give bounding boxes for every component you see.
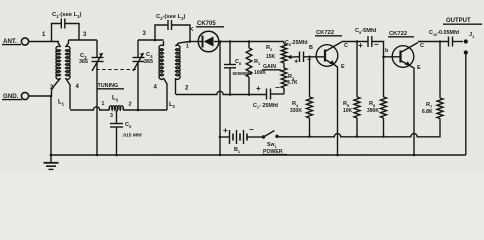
wire ground rail — [51, 154, 466, 156]
value label C6 500MMfd — [233, 59, 253, 76]
svg-text:J1: J1 — [469, 32, 475, 39]
junction — [356, 135, 359, 138]
svg-text:100K: 100K — [254, 70, 266, 76]
capacitor C2 — [155, 14, 190, 42]
variable capacitor C4 — [133, 40, 145, 110]
svg-text:R7: R7 — [426, 102, 433, 109]
junction — [115, 154, 118, 157]
junction — [356, 40, 359, 43]
capacitor C7 electrolytic — [256, 83, 284, 100]
svg-text:390K: 390K — [367, 108, 379, 114]
svg-text:3: 3 — [110, 113, 113, 119]
svg-text:365: 365 — [79, 59, 88, 65]
terminal GND — [21, 92, 28, 99]
resistor R7 — [437, 42, 443, 137]
svg-text:.015 Mfd: .015 Mfd — [122, 133, 142, 139]
resistor R5 — [354, 42, 360, 137]
svg-text:10K: 10K — [343, 108, 353, 114]
svg-text:R2: R2 — [266, 45, 273, 52]
svg-text:6.8K: 6.8K — [422, 109, 433, 115]
svg-text:C10-0.05Mfd: C10-0.05Mfd — [429, 30, 459, 37]
inductor T2 left winding — [159, 41, 167, 110]
net label GND — [2, 93, 22, 100]
svg-text:+: + — [256, 84, 261, 93]
junction — [96, 154, 99, 157]
svg-text:B: B — [309, 45, 313, 51]
svg-text:1: 1 — [102, 101, 105, 107]
svg-text:GAIN: GAIN — [263, 64, 276, 70]
wire — [418, 41, 449, 43]
junction — [336, 154, 339, 157]
wire — [69, 39, 98, 41]
capacitor C1 — [52, 12, 82, 42]
junction — [308, 135, 311, 138]
wire — [219, 41, 284, 43]
svg-text:−: − — [249, 125, 254, 134]
svg-text:C9-5Mfd: C9-5Mfd — [355, 28, 377, 35]
svg-text:E: E — [341, 64, 345, 70]
junction — [219, 136, 222, 139]
junction — [382, 56, 385, 59]
capacitor C6 — [224, 42, 236, 95]
svg-text:365: 365 — [144, 59, 153, 65]
svg-text:E: E — [417, 65, 421, 71]
value label R1 100K — [254, 59, 266, 76]
part label CK722 — [315, 30, 342, 36]
svg-text:R4: R4 — [292, 101, 299, 108]
label TUNING — [97, 83, 125, 89]
svg-text:R6: R6 — [369, 101, 376, 108]
svg-text:C: C — [420, 43, 424, 49]
svg-text:C1-(see L1): C1-(see L1) — [52, 12, 82, 19]
svg-text:+: + — [294, 57, 299, 66]
wire — [70, 107, 110, 110]
svg-text:C: C — [344, 43, 348, 49]
svg-text:C7- 25Mfd: C7- 25Mfd — [253, 103, 278, 110]
inductor L2 winding — [176, 42, 191, 95]
svg-text:B1: B1 — [234, 147, 241, 154]
wire battery positive feed — [219, 42, 221, 156]
svg-text:1: 1 — [186, 44, 189, 50]
jack J1 tip terminal — [464, 39, 468, 43]
junction — [219, 154, 222, 157]
svg-text:C4: C4 — [146, 52, 153, 59]
junction — [382, 135, 385, 138]
junction — [50, 154, 53, 157]
resistor R1 — [246, 42, 252, 95]
capacitor C5 — [110, 110, 123, 155]
value label R2 15K GAIN — [262, 45, 281, 70]
wire GND drop — [50, 96, 52, 155]
value label C5 .015 Mfd — [122, 122, 142, 139]
value label R6 390K — [367, 101, 379, 114]
part label CK705 — [196, 21, 224, 27]
variable capacitor C3 — [92, 40, 104, 155]
ganged tuning dashed link — [96, 69, 136, 71]
part label CK722 — [388, 31, 414, 37]
wire — [295, 56, 300, 58]
terminal ANT — [21, 38, 28, 45]
svg-text:TUNING: TUNING — [98, 83, 119, 89]
potentiometer R2 — [281, 42, 295, 64]
switch Sw1 POWER — [262, 131, 290, 139]
svg-text:OUTPUT: OUTPUT — [446, 18, 471, 24]
diode CK705 — [198, 31, 219, 52]
wire — [29, 41, 59, 43]
value label C4 365 — [144, 52, 153, 65]
junction — [308, 56, 311, 59]
wire negative supply rail — [290, 134, 440, 137]
net label ANT — [2, 38, 21, 45]
value label C3 365 — [79, 53, 88, 65]
svg-text:C2-(see L2): C2-(see L2) — [156, 14, 186, 21]
svg-text:C8-25Mfd: C8-25Mfd — [285, 40, 308, 47]
svg-text:+: + — [358, 40, 363, 50]
resistor R4 — [307, 57, 313, 137]
label POWER — [262, 149, 287, 155]
wire AVC return — [176, 91, 267, 94]
junction — [439, 40, 442, 43]
junction — [248, 93, 251, 96]
inductor T1 secondary winding — [66, 40, 71, 109]
wire — [190, 41, 198, 43]
svg-text:C5: C5 — [125, 122, 132, 129]
svg-text:L1: L1 — [58, 100, 65, 107]
capacitor C8 electrolytic — [294, 52, 325, 66]
ground — [44, 155, 59, 169]
svg-text:L2: L2 — [169, 102, 176, 109]
svg-text:K: K — [190, 27, 194, 33]
capacitor C9 electrolytic — [358, 36, 401, 57]
resistor R6 — [381, 57, 387, 137]
wire — [465, 53, 467, 156]
svg-text:330K: 330K — [290, 108, 302, 114]
jack J1 sleeve terminal — [464, 50, 468, 54]
wire — [123, 109, 167, 111]
battery B1 — [220, 125, 262, 144]
junction — [229, 40, 232, 43]
junction — [154, 39, 157, 42]
value label R4 330K — [290, 101, 302, 114]
inductor L3 — [109, 106, 123, 110]
svg-text:2: 2 — [129, 102, 132, 108]
label OUTPUT — [443, 18, 482, 24]
value label R3 4.7K — [287, 74, 298, 86]
svg-text:4.7K: 4.7K — [287, 80, 298, 86]
wire — [29, 95, 51, 97]
svg-text:C6: C6 — [235, 59, 242, 66]
resistor R3 — [281, 63, 287, 94]
svg-text:+: + — [223, 126, 228, 135]
svg-text:15K: 15K — [266, 54, 276, 60]
svg-text:−: − — [275, 83, 280, 92]
junction — [137, 109, 140, 112]
junction — [413, 154, 416, 157]
wire — [342, 41, 369, 43]
transistor Q1 CK722 — [316, 42, 341, 155]
junction — [229, 93, 232, 96]
junction — [189, 40, 192, 43]
svg-text:R1: R1 — [254, 59, 261, 66]
transistor Q2 CK722 — [392, 43, 418, 156]
value label R7 6.8K — [422, 102, 433, 115]
value label R5 10K — [343, 101, 353, 114]
junction — [219, 40, 222, 43]
svg-text:L3: L3 — [112, 96, 119, 103]
junction — [248, 40, 251, 43]
junction — [50, 95, 53, 98]
svg-text:R5: R5 — [343, 101, 350, 108]
capacitor C10 — [449, 37, 464, 47]
inductor L1 primary winding — [52, 42, 61, 97]
wire — [138, 39, 164, 41]
